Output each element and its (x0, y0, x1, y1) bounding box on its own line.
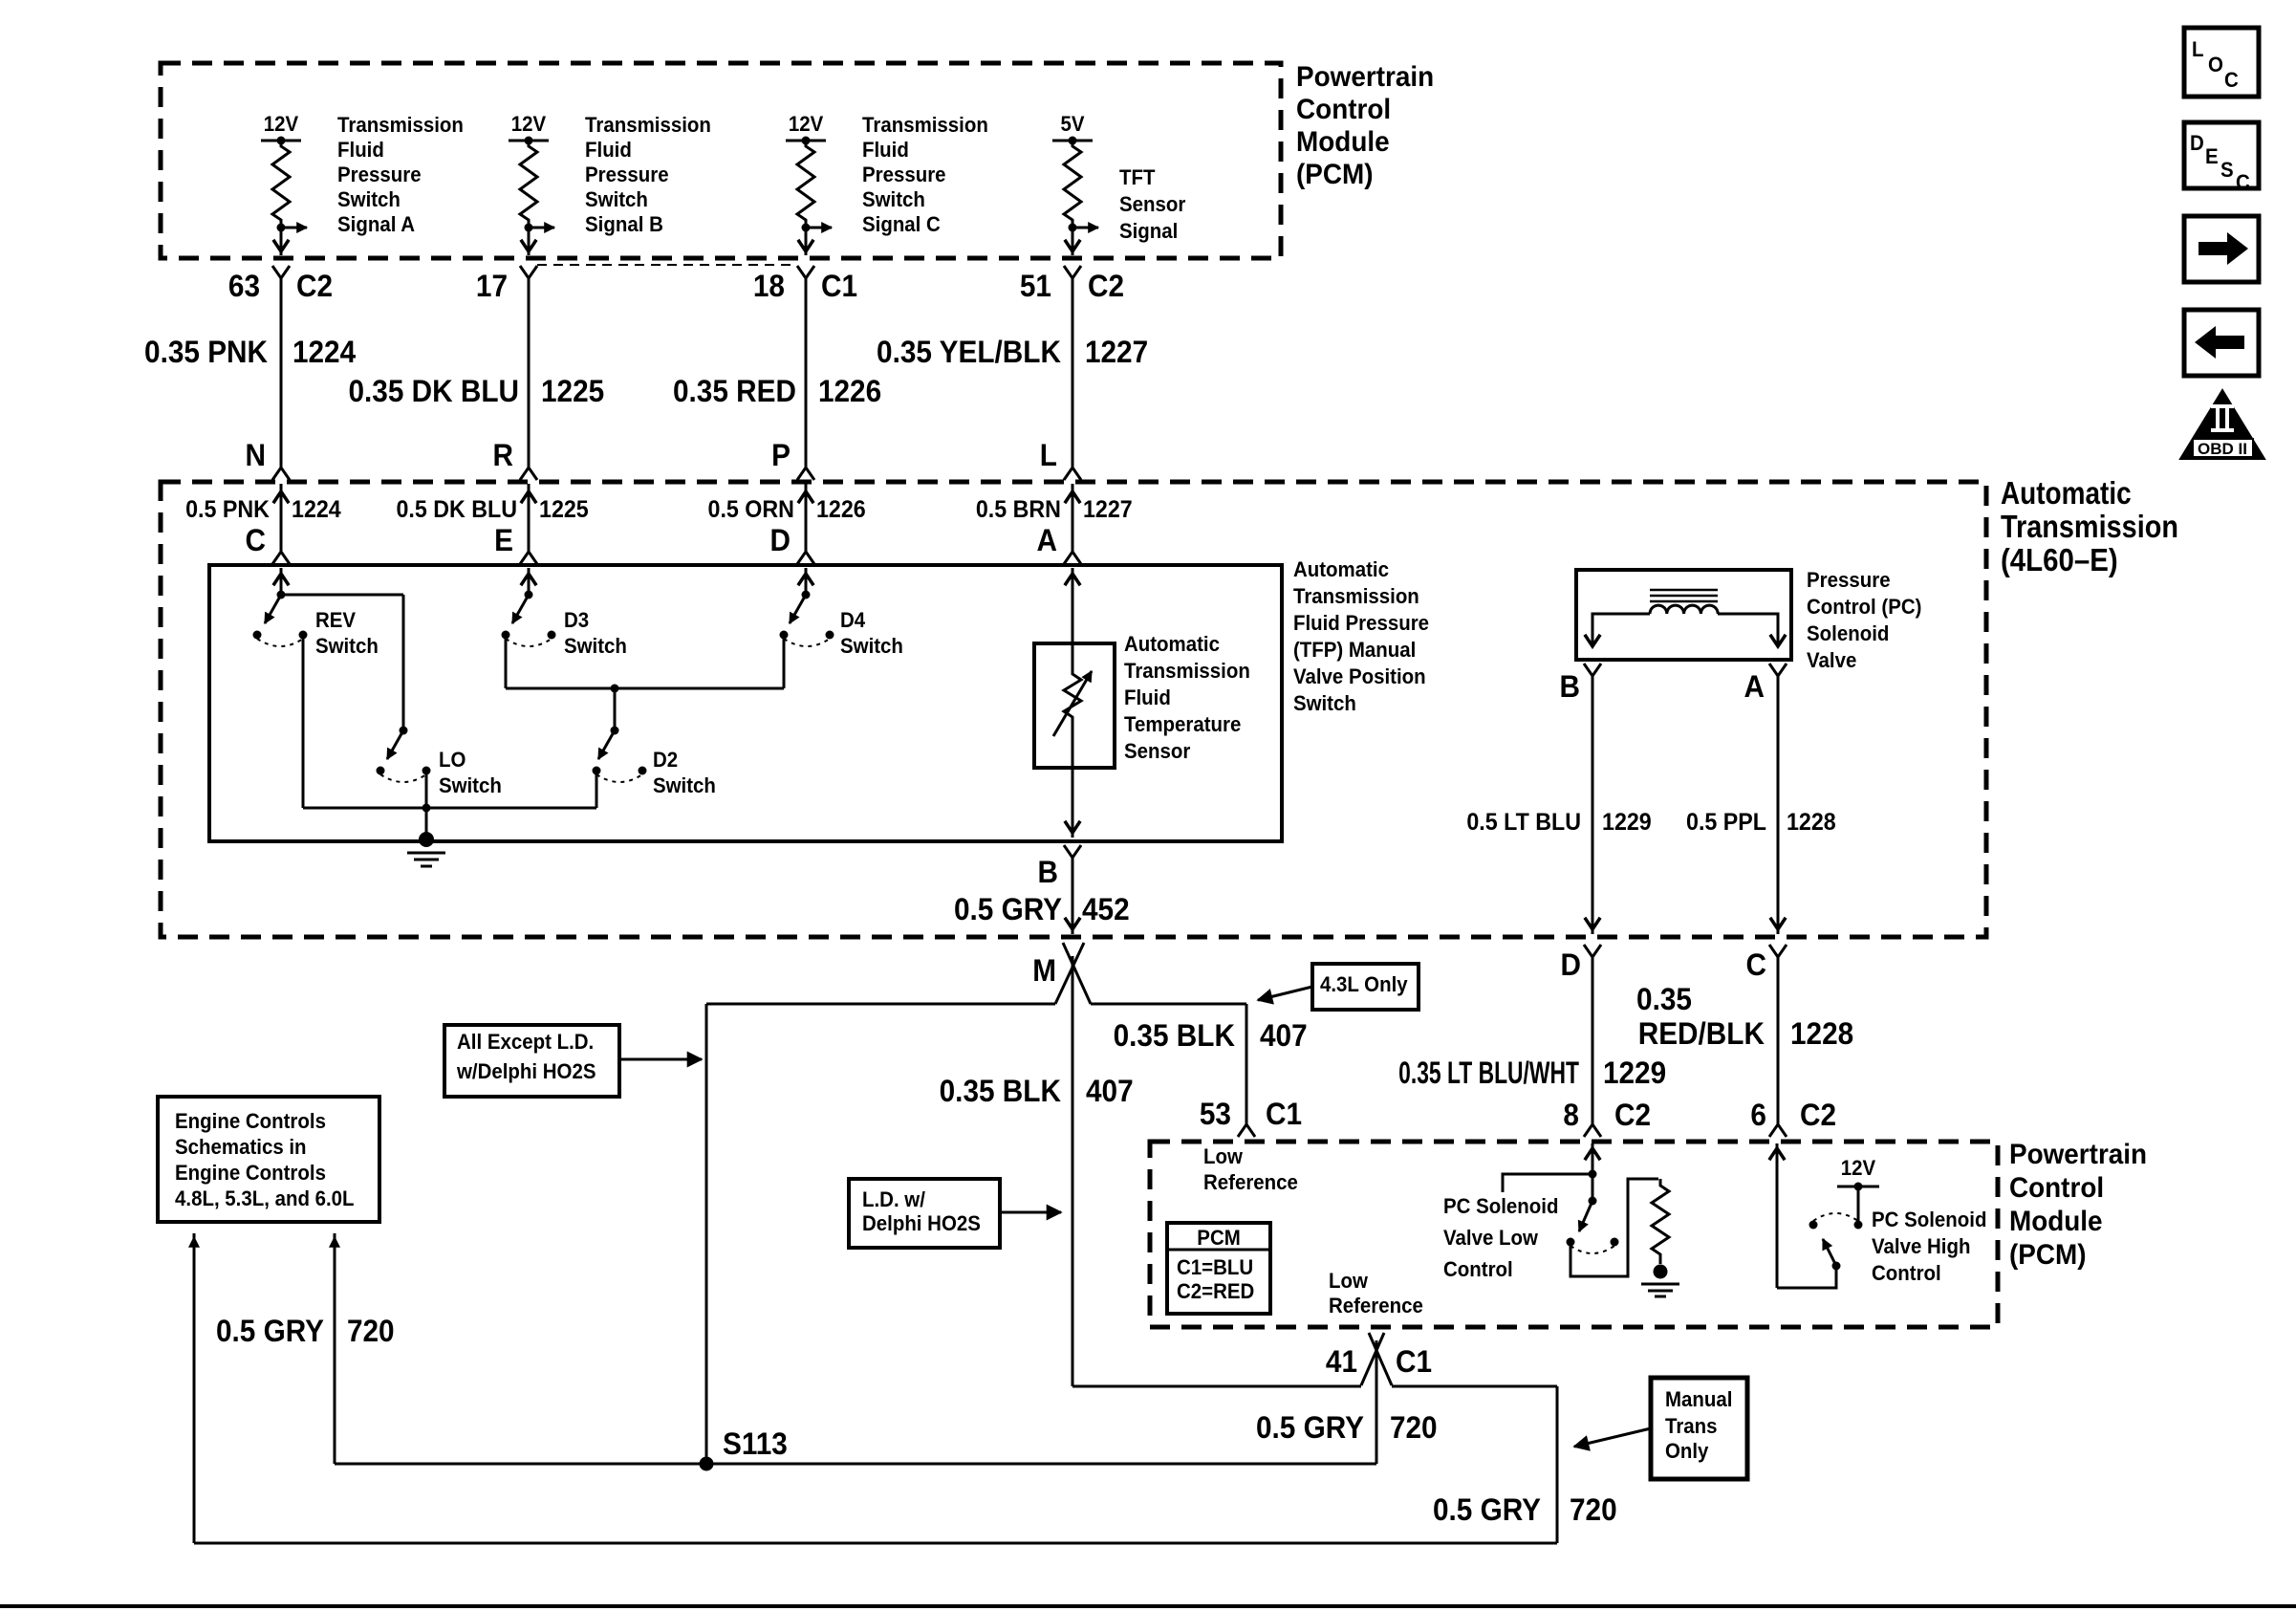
svg-text:L: L (1040, 438, 1057, 472)
TFP manual valve position switch box (209, 565, 1282, 841)
svg-text:E: E (2205, 144, 2219, 168)
pin B below TFP box (1064, 845, 1081, 858)
svg-text:Valve Position: Valve Position (1293, 664, 1426, 688)
svg-text:C1: C1 (1396, 1344, 1432, 1379)
svg-text:0.5 PNK: 0.5 PNK (185, 496, 270, 523)
resistor (pull-up) SignalB (520, 141, 537, 222)
high control switch (1823, 1239, 1836, 1266)
svg-text:Switch: Switch (653, 773, 716, 797)
svg-text:0.35 YEL/BLK: 0.35 YEL/BLK (877, 335, 1062, 369)
wire 1224 entering transmission, arrow up (280, 484, 283, 552)
svg-text:(TFP) Manual: (TFP) Manual (1293, 638, 1416, 662)
Manual Trans Only callout (1651, 1378, 1747, 1479)
Pressure Control (PC) Solenoid Valve box (1576, 570, 1791, 660)
svg-text:Fluid Pressure: Fluid Pressure (1293, 611, 1429, 635)
svg-text:Temperature: Temperature (1124, 712, 1242, 736)
svg-text:63: 63 (228, 269, 260, 303)
bottom rule (0, 1604, 2296, 1608)
svg-text:0.35 PNK: 0.35 PNK (144, 335, 269, 369)
wire from pin 41 right to manual-trans branch (1392, 1385, 1557, 1388)
pin 41 C1 connector (X) (1361, 1333, 1384, 1385)
12V feed (1857, 1186, 1860, 1221)
svg-text:Valve: Valve (1807, 648, 1856, 672)
svg-text:C1=BLU: C1=BLU (1177, 1255, 1253, 1279)
ground symbol (407, 852, 445, 855)
svg-text:All Except L.D.: All Except L.D. (457, 1030, 594, 1054)
svg-text:0.5 BRN: 0.5 BRN (976, 496, 1061, 523)
Engine Controls reference box (158, 1097, 379, 1222)
svg-text:Fluid: Fluid (337, 138, 384, 162)
svg-text:8: 8 (1563, 1098, 1579, 1132)
svg-text:0.35 DK BLU: 0.35 DK BLU (348, 374, 519, 408)
wire down to connector, arrow at module edge (280, 228, 283, 255)
svg-text:Low: Low (1329, 1269, 1368, 1293)
forward arrow icon (2184, 216, 2259, 282)
resistor (pull-up) Signal (1064, 141, 1081, 222)
svg-text:Signal C: Signal C (862, 212, 941, 236)
svg-text:17: 17 (476, 269, 508, 303)
svg-text:Transmission: Transmission (862, 113, 988, 137)
branch right from M to pin 53 (4.3L only) (1091, 1003, 1246, 1006)
main wire 407 down from M (1072, 956, 1074, 1386)
svg-text:12V: 12V (789, 112, 824, 136)
svg-text:S113: S113 (723, 1426, 788, 1461)
stub from node (1503, 1174, 1592, 1192)
wire 63 down (280, 278, 283, 468)
svg-text:Sensor: Sensor (1119, 192, 1185, 216)
wire label 0.5 GRY 452 (1072, 858, 1074, 934)
svg-text:Control: Control (1443, 1257, 1513, 1281)
svg-text:Pressure: Pressure (1807, 568, 1891, 592)
svg-text:Switch: Switch (315, 634, 379, 658)
svg-text:Fluid: Fluid (1124, 686, 1171, 709)
OBD II icon (2180, 390, 2264, 459)
svg-text:C1: C1 (1266, 1097, 1302, 1131)
wire 1227 entering transmission, arrow up (1072, 484, 1074, 552)
svg-text:Valve Low: Valve Low (1443, 1226, 1538, 1250)
svg-text:Powertrain: Powertrain (2009, 1139, 2147, 1170)
svg-text:REV: REV (315, 608, 357, 632)
svg-text:452: 452 (1082, 892, 1130, 926)
svg-text:Engine Controls: Engine Controls (175, 1161, 326, 1185)
svg-text:R: R (492, 438, 512, 472)
svg-text:Engine Controls: Engine Controls (175, 1109, 326, 1133)
svg-text:Valve High: Valve High (1872, 1234, 1970, 1258)
wire entering TFP box, arrow up (528, 568, 531, 595)
svg-text:Manual: Manual (1665, 1387, 1732, 1411)
pin 8 C2 (1584, 1124, 1601, 1137)
ground inside PCM (1654, 1265, 1668, 1279)
wire from REV node to LO switch (402, 595, 405, 727)
svg-text:D3: D3 (564, 608, 589, 632)
vertical wire up from S113 to M branch (705, 1004, 708, 1464)
wire 1226 entering transmission, arrow up (805, 484, 808, 552)
low control switch (1579, 1201, 1592, 1231)
svg-text:PC Solenoid: PC Solenoid (1872, 1208, 1986, 1231)
svg-text:0.5 LT BLU: 0.5 LT BLU (1466, 809, 1581, 836)
svg-text:Pressure: Pressure (862, 163, 946, 186)
svg-text:Switch: Switch (1293, 691, 1356, 715)
svg-text:0.35 BLK: 0.35 BLK (940, 1074, 1062, 1108)
svg-text:Switch: Switch (439, 773, 502, 797)
svg-text:Transmission: Transmission (337, 113, 464, 137)
svg-text:1229: 1229 (1602, 809, 1652, 836)
svg-text:Control: Control (1296, 94, 1391, 125)
svg-text:0.5 ORN: 0.5 ORN (708, 496, 794, 523)
svg-text:4.8L, 5.3L, and 6.0L: 4.8L, 5.3L, and 6.0L (175, 1186, 355, 1210)
svg-text:720: 720 (1570, 1492, 1617, 1527)
signal tap arrow SignalB (529, 227, 554, 229)
svg-text:D2: D2 (653, 748, 678, 772)
svg-text:720: 720 (1390, 1410, 1438, 1445)
svg-text:4.3L Only: 4.3L Only (1320, 972, 1408, 996)
svg-text:PC Solenoid: PC Solenoid (1443, 1194, 1558, 1218)
node junction SignalB (528, 222, 531, 228)
wire 18 down (805, 278, 808, 468)
svg-text:D: D (1561, 947, 1581, 982)
wire 1228 down (1777, 676, 1780, 934)
svg-text:w/Delphi HO2S: w/Delphi HO2S (456, 1059, 596, 1083)
svg-text:1226: 1226 (818, 374, 881, 408)
pin A of PC solenoid (1769, 664, 1787, 676)
svg-text:L: L (2192, 37, 2204, 61)
svg-text:O: O (2208, 53, 2223, 76)
svg-text:PCM: PCM (1197, 1226, 1240, 1250)
svg-text:407: 407 (1086, 1074, 1134, 1108)
connector pin 18 C1 below PCM box (797, 266, 814, 278)
splice M connector (X) (1055, 943, 1084, 1004)
back arrow icon (2184, 310, 2259, 376)
wire 1225 entering transmission, arrow up (528, 484, 531, 552)
PCM top dashed box (161, 63, 1281, 258)
wire entering TFP box, arrow up (805, 568, 808, 595)
D2 Switch (611, 727, 619, 735)
wire from main 407 wire to pin 41 (1072, 1385, 1361, 1388)
signal tap arrow SignalA (281, 227, 307, 229)
node junction SignalA (280, 222, 283, 228)
svg-text:C1: C1 (821, 269, 857, 303)
wire C down to PCM pin 6 (1777, 957, 1780, 1124)
svg-text:C: C (2236, 170, 2250, 194)
svg-text:720: 720 (347, 1314, 395, 1348)
svg-text:0.5 GRY: 0.5 GRY (216, 1314, 324, 1348)
D4 Switch (802, 591, 811, 599)
S113 splice wire (335, 1463, 1376, 1466)
svg-text:Automatic: Automatic (2001, 475, 2132, 511)
svg-text:P: P (771, 438, 791, 472)
svg-text:1224: 1224 (292, 335, 357, 369)
svg-text:Control: Control (2009, 1172, 2104, 1204)
svg-text:Fluid: Fluid (862, 138, 909, 162)
svg-text:0.35 LT BLU/WHT: 0.35 LT BLU/WHT (1398, 1056, 1579, 1090)
4.3L Only callout box (1312, 964, 1419, 1010)
svg-text:Solenoid: Solenoid (1807, 621, 1889, 645)
svg-text:Reference: Reference (1329, 1294, 1423, 1317)
svg-text:E: E (494, 523, 513, 557)
svg-text:0.35 RED: 0.35 RED (673, 374, 796, 408)
4.3L Only arrow (1258, 987, 1312, 1000)
pin C below transmission box (1769, 945, 1787, 957)
svg-text:Pressure: Pressure (585, 163, 669, 186)
bottom common wire of switches (303, 807, 596, 810)
svg-text:C2: C2 (1088, 269, 1124, 303)
wire 51 down (1072, 278, 1074, 468)
LO Switch (400, 727, 408, 735)
svg-text:Signal B: Signal B (585, 212, 663, 236)
wire D down to PCM pin 8 (1592, 957, 1594, 1124)
svg-text:Transmission: Transmission (1293, 584, 1419, 608)
svg-text:Module: Module (2009, 1206, 2103, 1237)
wire down to connector, arrow at module edge (528, 228, 531, 255)
riser from S113 wire to pin 41 (1375, 1340, 1378, 1464)
Automatic Transmission dashed box (161, 482, 1986, 937)
wire from engine controls (far left) down to bottom wire (193, 1233, 196, 1543)
svg-text:12V: 12V (264, 112, 299, 136)
svg-text:C2: C2 (1800, 1098, 1836, 1132)
svg-text:Automatic: Automatic (1293, 557, 1389, 581)
svg-text:Switch: Switch (862, 187, 925, 211)
svg-text:C: C (1746, 947, 1766, 982)
svg-text:0.5 GRY: 0.5 GRY (1256, 1410, 1364, 1445)
wire down to connector, arrow at module edge (805, 228, 808, 255)
solenoid coil (1650, 605, 1718, 614)
REV Switch (277, 591, 286, 599)
svg-text:0.35: 0.35 (1636, 982, 1692, 1016)
svg-text:S: S (2220, 158, 2234, 182)
branch left from M toward S113 riser (706, 1003, 1055, 1006)
connector pin 51 C2 below PCM box (1064, 266, 1081, 278)
svg-text:TFT: TFT (1119, 165, 1156, 189)
svg-text:53: 53 (1200, 1097, 1231, 1131)
wire entering TFP box, arrow up (1072, 568, 1074, 669)
coil lead B (1592, 614, 1650, 635)
signal tap arrow SignalC (806, 227, 832, 229)
svg-text:1229: 1229 (1603, 1056, 1666, 1090)
resistor (pull-up) SignalA (272, 141, 290, 222)
svg-text:12V: 12V (511, 112, 547, 136)
bottom 720 wire (194, 1542, 1557, 1545)
svg-text:5V: 5V (1061, 112, 1086, 136)
D3 Switch (525, 591, 533, 599)
svg-text:Module: Module (1296, 126, 1390, 158)
svg-text:18: 18 (753, 269, 785, 303)
pin D below transmission box (1584, 945, 1601, 957)
svg-text:Pressure: Pressure (337, 163, 422, 186)
DESC icon (2184, 122, 2259, 188)
svg-text:C2=RED: C2=RED (1177, 1279, 1254, 1303)
svg-text:0.35 BLK: 0.35 BLK (1114, 1018, 1236, 1053)
wire D3 left contact down to common (505, 639, 508, 688)
svg-text:Trans: Trans (1665, 1414, 1718, 1438)
svg-text:407: 407 (1260, 1018, 1308, 1053)
wire to D2 switch (614, 688, 617, 727)
svg-text:Fluid: Fluid (585, 138, 632, 162)
svg-text:Delphi HO2S: Delphi HO2S (862, 1211, 981, 1235)
L.D. w/ Delphi HO2S callout (849, 1179, 1000, 1248)
solenoid core (1650, 589, 1718, 592)
pin 6 C2 (1769, 1124, 1787, 1137)
svg-text:D4: D4 (840, 608, 865, 632)
svg-text:B: B (1559, 669, 1579, 704)
wire 17 down (528, 278, 531, 468)
wire entering TFP box, arrow up (280, 568, 283, 595)
svg-text:Transmission: Transmission (585, 113, 711, 137)
svg-text:RED/BLK: RED/BLK (1638, 1016, 1765, 1051)
svg-text:Control: Control (1872, 1261, 1941, 1285)
wire from sensor down, arrow at TFP box bottom (1072, 723, 1074, 838)
svg-text:Low: Low (1203, 1144, 1243, 1168)
thin dashed connector C1 grouping line (537, 264, 797, 266)
svg-text:(4L60–E): (4L60–E) (2001, 542, 2118, 577)
svg-text:(PCM): (PCM) (2009, 1239, 2087, 1271)
svg-text:C2: C2 (296, 269, 333, 303)
PC solenoid valve low control driver: wire from pin 8 (1592, 1143, 1594, 1201)
node junction SignalC (805, 222, 808, 228)
svg-text:Signal A: Signal A (337, 212, 415, 236)
wire 1229 down (1592, 676, 1594, 934)
svg-text:Signal: Signal (1119, 219, 1178, 243)
svg-text:D: D (769, 523, 790, 557)
svg-text:Switch: Switch (337, 187, 401, 211)
svg-text:0.5 GRY: 0.5 GRY (954, 892, 1062, 926)
svg-text:Transmission: Transmission (2001, 509, 2178, 544)
PCM bottom dashed box (1150, 1142, 1998, 1327)
svg-text:0.5 DK BLU: 0.5 DK BLU (396, 496, 517, 523)
svg-text:A: A (1036, 523, 1056, 557)
svg-text:Automatic: Automatic (1124, 632, 1220, 656)
svg-text:Schematics in: Schematics in (175, 1135, 307, 1159)
svg-text:L.D. w/: L.D. w/ (862, 1187, 925, 1211)
svg-text:Switch: Switch (585, 187, 648, 211)
svg-text:Transmission: Transmission (1124, 659, 1250, 683)
svg-text:1225: 1225 (539, 496, 589, 523)
svg-text:51: 51 (1020, 269, 1051, 303)
svg-text:OBD II: OBD II (2198, 440, 2247, 458)
All Except L.D. w/Delphi HO2S callout (444, 1025, 619, 1097)
svg-text:0.5 GRY: 0.5 GRY (1433, 1492, 1541, 1527)
resistor (pull-up) SignalC (797, 141, 814, 222)
PCM connector legend box (1167, 1223, 1270, 1314)
svg-text:M: M (1032, 953, 1056, 988)
coil lead A (1718, 614, 1778, 635)
svg-text:1226: 1226 (816, 496, 866, 523)
svg-text:6: 6 (1750, 1098, 1766, 1132)
svg-text:1227: 1227 (1083, 496, 1133, 523)
svg-text:Sensor: Sensor (1124, 739, 1190, 763)
connector pin 17 below PCM box (520, 266, 537, 278)
svg-text:0.5 PPL: 0.5 PPL (1686, 809, 1766, 836)
svg-text:(PCM): (PCM) (1296, 159, 1374, 190)
svg-text:1224: 1224 (292, 496, 341, 523)
svg-text:12V: 12V (1841, 1156, 1876, 1180)
pin 53 C1 (1238, 1124, 1255, 1137)
svg-text:Switch: Switch (564, 634, 627, 658)
PC solenoid valve high control driver: wire from pin 6 (1776, 1143, 1779, 1288)
svg-text:C: C (2224, 68, 2239, 92)
svg-text:41: 41 (1326, 1344, 1357, 1379)
svg-text:1225: 1225 (541, 374, 604, 408)
snubber resistor (1652, 1179, 1669, 1264)
connector pin 63 C2 below PCM box (272, 266, 290, 278)
Automatic Transmission Fluid Temperature Sensor box (1034, 643, 1115, 768)
svg-text:N: N (245, 438, 265, 472)
ground stub and junction on TFP box edge (425, 808, 428, 836)
wire from engine controls (left) down to S113 (334, 1233, 336, 1464)
svg-text:Control (PC): Control (PC) (1807, 595, 1921, 619)
svg-text:1228: 1228 (1787, 809, 1836, 836)
svg-text:A: A (1744, 669, 1764, 704)
wire down to connector, arrow at module edge (1072, 228, 1074, 255)
thermistor symbol (1064, 667, 1081, 723)
svg-text:Switch: Switch (840, 634, 903, 658)
svg-text:Only: Only (1665, 1439, 1709, 1463)
svg-text:Reference: Reference (1203, 1170, 1298, 1194)
LOC icon (2184, 28, 2259, 97)
pin B of PC solenoid (1584, 664, 1601, 676)
svg-text:D: D (2190, 131, 2204, 155)
svg-text:B: B (1037, 855, 1057, 889)
svg-text:Powertrain: Powertrain (1296, 61, 1434, 93)
wire from REV switch right contact down (302, 639, 305, 808)
signal tap arrow Signal (1072, 227, 1098, 229)
svg-text:1228: 1228 (1790, 1016, 1853, 1051)
svg-text:C2: C2 (1614, 1098, 1651, 1132)
node junction Signal (1072, 222, 1074, 228)
svg-text:1227: 1227 (1085, 335, 1148, 369)
svg-text:C: C (245, 523, 265, 557)
svg-text:LO: LO (439, 748, 466, 772)
